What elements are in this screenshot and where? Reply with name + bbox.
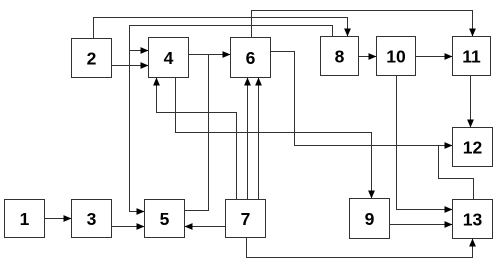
svg-text:8: 8: [335, 46, 345, 66]
svg-text:9: 9: [365, 209, 375, 229]
svg-text:7: 7: [241, 209, 251, 229]
svg-text:6: 6: [246, 48, 256, 68]
svg-text:5: 5: [160, 209, 170, 229]
svg-text:13: 13: [463, 209, 483, 229]
svg-text:1: 1: [20, 209, 30, 229]
svg-text:3: 3: [87, 209, 97, 229]
svg-text:2: 2: [87, 48, 97, 68]
svg-text:12: 12: [463, 137, 483, 157]
svg-text:11: 11: [462, 46, 481, 66]
svg-text:4: 4: [164, 48, 174, 68]
svg-text:10: 10: [386, 46, 406, 66]
